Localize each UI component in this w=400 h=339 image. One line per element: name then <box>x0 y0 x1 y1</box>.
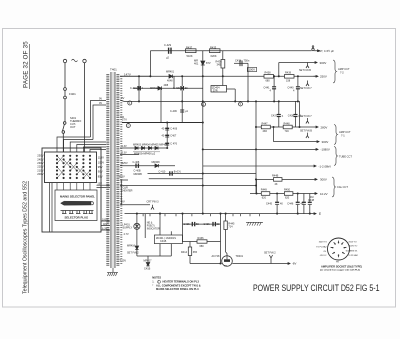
junction circle 2 <box>126 124 130 128</box>
svg-text:210V: 210V <box>37 168 43 172</box>
svg-text:MR417: MR417 <box>144 259 153 262</box>
transformer secondary winding <box>116 74 119 266</box>
svg-text:620: 620 <box>285 197 290 200</box>
cap row C425 C426 <box>183 214 221 227</box>
junction circle 3 on 0V rail <box>202 102 206 106</box>
tap stub 27V <box>120 116 124 118</box>
svg-text:7-2: 7-2 <box>340 70 344 74</box>
svg-text:9V: 9V <box>99 98 102 101</box>
LT wire row 3 <box>149 178 203 180</box>
svg-text:-1080V: -1080V <box>321 148 330 152</box>
svg-text:TO PL3/A2: TO PL3/A2 <box>316 246 327 249</box>
voltage tap labels left <box>37 154 43 177</box>
diode MR402 <box>158 86 162 90</box>
mains terminal L <box>63 59 66 62</box>
svg-text:345: 345 <box>217 63 222 67</box>
svg-text:R448: R448 <box>284 122 291 125</box>
svg-text:OUT: OUT <box>70 125 76 129</box>
svg-text:MAINS SELECTOR PANEL ON PL3: MAINS SELECTOR PANEL ON PL3 <box>156 287 199 291</box>
riser 280V to 300V row <box>273 127 275 142</box>
svg-text:300V TO: 300V TO <box>319 242 328 244</box>
6.3V cal row <box>250 193 317 195</box>
resistor R436b horizontal <box>183 224 221 263</box>
svg-text:57R: 57R <box>213 90 218 93</box>
svg-text:MR40B: MR40B <box>134 173 143 176</box>
svg-text:R44B: R44B <box>272 175 279 178</box>
top EHT rail <box>150 50 311 52</box>
electrolytic C447 <box>302 194 306 214</box>
svg-text:C437: C437 <box>271 114 278 117</box>
heater long wire <box>120 185 256 187</box>
wire switch to panel <box>62 133 64 152</box>
junction circle 5 <box>239 102 243 106</box>
svg-text:AMP CCT: AMP CCT <box>339 130 351 134</box>
svg-text:90V: 90V <box>98 170 103 174</box>
27V rail <box>122 122 203 124</box>
svg-text:6.3V: 6.3V <box>122 151 127 154</box>
svg-text:MR403+MR406 µ2: MR403+MR406 µ2 <box>134 153 156 156</box>
svg-text:C-406: C-406 <box>170 110 177 113</box>
-1080V long row <box>203 148 318 150</box>
svg-text:10.2V: 10.2V <box>320 192 328 196</box>
resistor R449 <box>261 192 270 196</box>
wire live down to fuse <box>64 63 66 88</box>
E ground rail <box>125 213 317 215</box>
svg-text:C434: C434 <box>235 59 242 63</box>
test point SET FtN 2 <box>269 255 272 264</box>
svg-text:95V: 95V <box>98 165 103 169</box>
svg-text:240V: 240V <box>37 157 43 161</box>
svg-text:C425: C425 <box>184 223 191 226</box>
0V rail <box>124 100 300 102</box>
svg-text:680: 680 <box>266 80 271 83</box>
svg-text:110V: 110V <box>98 156 104 160</box>
selector contact grid <box>56 155 91 179</box>
arrow to EHT cct <box>314 50 319 52</box>
resistor R433 <box>210 49 221 53</box>
drop x171.3 <box>170 231 172 235</box>
svg-text:25V: 25V <box>98 182 103 185</box>
svg-text:300V TO: 300V TO <box>349 246 358 248</box>
resistor R450 <box>284 192 293 196</box>
svg-text:100V: 100V <box>249 68 256 72</box>
resistor R437 <box>186 49 197 53</box>
drop from 0V rail right end <box>299 101 301 127</box>
bracket CAL CCT <box>332 177 336 197</box>
capacitor C401 <box>138 86 140 90</box>
transistor TR401 <box>190 256 232 267</box>
junction circle 4 <box>128 101 132 105</box>
svg-text:R433: R433 <box>210 45 217 49</box>
svg-text:C 476: C 476 <box>170 143 177 146</box>
svg-text:C-401: C-401 <box>130 87 137 90</box>
svg-text:R438: R438 <box>265 72 272 75</box>
svg-text:620: 620 <box>262 197 267 200</box>
drop to lamp <box>136 214 138 224</box>
svg-text:365: 365 <box>193 251 198 254</box>
svg-text:TO PL3/A2: TO PL3/A2 <box>348 254 359 257</box>
svg-text:0V: 0V <box>121 96 125 100</box>
svg-text:E: E <box>319 212 321 216</box>
svg-text:C448: C448 <box>308 199 315 202</box>
svg-text:-8V: -8V <box>292 262 296 266</box>
capacitor C408 series <box>136 164 138 168</box>
-2.08kV long row <box>203 165 316 167</box>
ground chassis hatch <box>107 273 118 277</box>
secondary tap ticks <box>120 76 122 264</box>
EHT output terminal <box>312 48 314 50</box>
selector outer enclosure box <box>42 148 101 232</box>
emitter wire to -8V <box>232 263 290 265</box>
svg-text:T401: T401 <box>110 68 117 72</box>
wires panel to lower box <box>57 183 90 190</box>
svg-text:HEATER: HEATER <box>123 189 133 192</box>
capacitor C406 below 0V rail <box>180 101 184 122</box>
resistor R436 vertical <box>221 51 225 77</box>
svg-text:R447: R447 <box>262 122 269 125</box>
svg-text:220V: 220V <box>37 165 43 169</box>
svg-text:SCREEN V1: SCREEN V1 <box>346 250 359 252</box>
mains terminal N <box>83 59 86 62</box>
svg-text:SET FtN 7: SET FtN 7 <box>300 115 312 118</box>
svg-text:401: 401 <box>194 62 199 66</box>
svg-text:300V: 300V <box>320 61 327 65</box>
svg-text:4.7V: 4.7V <box>124 233 129 236</box>
lamp lower lead <box>136 229 138 245</box>
svg-text:EHT, C-5½ µF: EHT, C-5½ µF <box>318 49 335 53</box>
capacitor C438 <box>294 101 298 127</box>
drop x160 <box>159 214 161 235</box>
svg-text:4K6: 4K6 <box>263 130 268 133</box>
electrolytic C446 <box>296 194 300 214</box>
svg-text:MR402: MR402 <box>150 87 159 90</box>
svg-text:SUPPLY: SUPPLY <box>123 226 133 229</box>
280V output row <box>256 126 318 128</box>
svg-text:4048: 4048 <box>167 79 173 82</box>
svg-text:C-408: C-408 <box>133 161 140 164</box>
diode MR416 <box>135 246 138 256</box>
svg-text:-1-2.08kV: -1-2.08kV <box>319 164 332 168</box>
socket outline <box>328 238 350 260</box>
capacitor C410 series <box>170 171 172 175</box>
svg-text:POWER SUPPLY CIRCUIT D52 FIG: POWER SUPPLY CIRCUIT D52 FIG 5-1 <box>253 283 380 294</box>
resistor R445 vertical <box>224 214 227 256</box>
svg-text:510K: 510K <box>187 54 193 58</box>
svg-text:0V: 0V <box>122 200 125 204</box>
resistor R448 <box>283 125 292 129</box>
svg-text:B+C½: B+C½ <box>174 169 182 173</box>
primary tap wires upper <box>91 101 107 140</box>
svg-text:PAGE 32 OF 35: PAGE 32 OF 35 <box>23 41 30 88</box>
svg-text:714: 714 <box>228 226 233 229</box>
svg-text:SET FtN B: SET FtN B <box>300 130 312 133</box>
node 147V label <box>0 0 1 1</box>
smoothing branch vertical at 139 <box>138 76 140 101</box>
transformer primary winding <box>106 74 109 266</box>
svg-text:300V: 300V <box>322 140 329 144</box>
svg-text:C-429: C-429 <box>164 43 172 47</box>
svg-text:C-410: C-410 <box>159 170 166 173</box>
svg-text:-8.5V: -8.5V <box>119 175 125 179</box>
svg-text:HEATER TERMINALS ON PL3: HEATER TERMINALS ON PL3 <box>163 280 200 284</box>
riser to top rail <box>149 51 151 77</box>
HT rail 147V <box>120 75 318 77</box>
indicator feed wire <box>144 214 146 238</box>
panel internal left return wires <box>50 183 53 232</box>
svg-text:C438: C438 <box>288 114 295 117</box>
svg-text:MAINS SELECTOR PANEL: MAINS SELECTOR PANEL <box>60 195 95 199</box>
300V cal row <box>257 178 318 180</box>
svg-text:4K: 4K <box>275 183 278 186</box>
selector plug pins <box>61 211 94 214</box>
test point SET FtN B2 <box>306 133 309 139</box>
svg-text:B25V: B25V <box>122 162 128 165</box>
svg-text:SET FtN B: SET FtN B <box>299 69 311 72</box>
electrolytic C448 <box>308 194 312 214</box>
primary tap bundle to panel <box>57 137 106 152</box>
svg-text:SET FtN 2: SET FtN 2 <box>127 251 139 254</box>
svg-text:C41B: C41B <box>160 240 167 243</box>
LT wire row 2 <box>148 173 257 175</box>
svg-text:MR401: MR401 <box>166 70 175 73</box>
selector bar pointer <box>61 201 94 205</box>
selector cross links <box>57 156 90 178</box>
svg-text:300V: 300V <box>320 178 327 182</box>
300V lower output row <box>274 141 320 143</box>
C434 branch down <box>247 69 249 101</box>
test point SET FtN 7b <box>306 118 309 124</box>
riser 300V to 250V rail <box>278 63 280 77</box>
wire under lamp area <box>137 255 171 257</box>
0V heater wire <box>120 201 122 205</box>
svg-text:C407: C407 <box>170 135 177 138</box>
svg-text:250V TO: 250V TO <box>348 242 357 244</box>
riser cal <box>256 179 258 193</box>
Telequipment rotated title text <box>23 181 29 294</box>
thermal cut-out S401 <box>63 122 66 125</box>
rectifier diode row MR403-406 <box>120 146 167 149</box>
vertical main bus x202.8 <box>202 76 204 213</box>
bracket AMP CCT 7-1 <box>334 125 338 145</box>
svg-text:SET FtN 2: SET FtN 2 <box>264 252 276 255</box>
svg-text:AMPLIFIER SOCKET (D&S TYPE): AMPLIFIER SOCKET (D&S TYPE) <box>321 264 362 268</box>
svg-text:C426: C426 <box>204 223 211 226</box>
svg-text:1.: 1. <box>152 280 154 284</box>
svg-text:250V: 250V <box>320 75 327 79</box>
svg-text:MR408: MR408 <box>152 161 161 164</box>
svg-text:MR403 MR404 MR405 MR406: MR403 MR404 MR405 MR406 <box>133 144 168 147</box>
svg-text:INDICATOR: INDICATOR <box>147 227 160 230</box>
arrow 300V <box>315 62 317 64</box>
socket pins <box>331 241 347 258</box>
svg-text:TUBE CCT: TUBE CCT <box>339 154 352 158</box>
svg-text:280V: 280V <box>321 125 328 129</box>
wire neutral down to panel <box>84 63 86 152</box>
300V output wire <box>279 62 317 64</box>
tap stub 147V <box>120 75 150 77</box>
svg-text:NOTES: NOTES <box>152 275 161 279</box>
lamp LP401 <box>134 223 140 229</box>
AC symbol <box>72 59 78 62</box>
svg-text:200V: 200V <box>37 172 43 176</box>
svg-text:158: 158 <box>286 80 291 83</box>
below ZD401 <box>159 244 161 256</box>
svg-text:TR401: TR401 <box>236 255 244 258</box>
electrolytic C445 <box>275 194 279 214</box>
mid branch wire row <box>133 87 203 89</box>
svg-text:71K: 71K <box>285 130 290 133</box>
svg-text:100V: 100V <box>98 160 104 164</box>
svg-text:C446: C446 <box>287 203 294 206</box>
panel output wires to transformer <box>97 185 111 230</box>
socket labels right <box>346 242 359 257</box>
capacitor C437 <box>277 101 281 127</box>
ZD404 box <box>211 86 227 93</box>
svg-text:C41B: C41B <box>144 267 151 270</box>
bracket AMP CCT 7-2 <box>333 60 337 83</box>
selector contact box <box>45 152 97 183</box>
transformer screen to ground <box>112 268 114 272</box>
svg-text:MR416: MR416 <box>127 244 136 247</box>
arrow 250V <box>314 75 319 77</box>
svg-text:(as viewed from copper side wi: (as viewed from copper side with PL3) <box>320 269 360 272</box>
chassis hatch bar <box>246 222 263 225</box>
bracket TUBE CCT <box>334 147 338 166</box>
resistor R414 vertical <box>188 242 191 256</box>
diode MR417 <box>146 256 149 266</box>
socket pin dots <box>332 242 345 256</box>
svg-text:AMP CCT: AMP CCT <box>338 67 350 71</box>
svg-text:R449: R449 <box>261 189 268 192</box>
svg-text:R437: R437 <box>186 45 193 49</box>
0V rail secondary <box>120 100 124 101</box>
svg-text:ACY28: ACY28 <box>212 255 221 258</box>
vertical x256 100V line <box>255 101 257 193</box>
branch vertical x182 <box>181 76 183 86</box>
svg-text:6.3V: 6.3V <box>122 145 127 148</box>
svg-text:85V: 85V <box>98 174 103 178</box>
junction ticks on E rail <box>143 214 259 217</box>
svg-text:7-1: 7-1 <box>341 133 345 137</box>
stacked caps C406/C407/C410 <box>165 123 169 149</box>
vertical from C405 x161 <box>160 88 162 122</box>
test point CRT PIN 3 <box>151 205 154 210</box>
capacitor C441 <box>272 76 276 101</box>
zener MR401 <box>201 51 205 77</box>
svg-text:250V: 250V <box>37 154 43 158</box>
svg-text:C-406: C-406 <box>170 128 177 131</box>
svg-text:750n: 750n <box>244 59 250 63</box>
svg-text:*: * <box>152 284 153 288</box>
boxed node label 100V <box>247 68 256 72</box>
svg-text:R439: R439 <box>285 72 292 75</box>
svg-text:27V: 27V <box>122 118 127 122</box>
LT stub 6.3V <box>120 154 139 156</box>
resistor R439 <box>285 75 295 79</box>
svg-text:CRT PIN 3: CRT PIN 3 <box>147 200 160 203</box>
svg-text:4R8: 4R8 <box>164 84 169 87</box>
ZD401 box <box>154 235 182 244</box>
test point SET FtN B <box>306 63 309 69</box>
tap stub row3 <box>120 179 128 181</box>
resistor R447 <box>261 125 270 129</box>
diode MR408 <box>155 164 158 167</box>
svg-text:620K: 620K <box>211 54 217 58</box>
svg-text:R414: R414 <box>181 251 188 254</box>
resistor R446 <box>274 178 283 182</box>
LT wire row 1 <box>120 165 175 167</box>
trimmer C434 branch <box>234 61 248 70</box>
capacitor C440 <box>296 76 300 101</box>
svg-text:680: 680 <box>200 245 205 248</box>
svg-text:0V: 0V <box>99 102 102 105</box>
svg-text:C445: C445 <box>266 203 273 206</box>
capacitor C429 <box>169 48 171 54</box>
diode MR411 on rail <box>169 75 173 79</box>
svg-text:CAL CCT: CAL CCT <box>337 185 348 189</box>
svg-text:1M: 1M <box>310 196 313 199</box>
resistor R438 <box>264 75 274 79</box>
junction dots <box>136 75 311 264</box>
socket labels left <box>316 242 327 258</box>
test point SET FtN 7 <box>306 81 309 87</box>
fuse F401 <box>64 88 67 91</box>
svg-text:SET FtN 7: SET FtN 7 <box>300 87 312 90</box>
svg-text:Telequipment Oscilloscopes Typ: Telequipment Oscilloscopes Types D52 and… <box>23 181 29 294</box>
selector lower box <box>55 190 97 221</box>
PAGE header rotated text <box>23 41 30 89</box>
svg-text:87V: 87V <box>206 61 211 65</box>
voltage tap labels right <box>98 156 104 179</box>
svg-text:7.15V: 7.15V <box>120 259 127 262</box>
capacitor C405 <box>181 86 183 90</box>
transformer core <box>111 72 116 268</box>
svg-text:-8V DC: -8V DC <box>320 255 327 257</box>
svg-text:230V: 230V <box>37 161 43 165</box>
svg-text:R436: R436 <box>198 237 205 240</box>
svg-text:F401: F401 <box>69 92 76 96</box>
svg-text:SELECTOR PLUG: SELECTOR PLUG <box>65 216 89 220</box>
svg-text:147V: 147V <box>124 72 131 76</box>
diode row lower label wire <box>133 151 160 153</box>
svg-text:R450: R450 <box>284 189 291 192</box>
wire fuse to switch <box>64 99 66 122</box>
